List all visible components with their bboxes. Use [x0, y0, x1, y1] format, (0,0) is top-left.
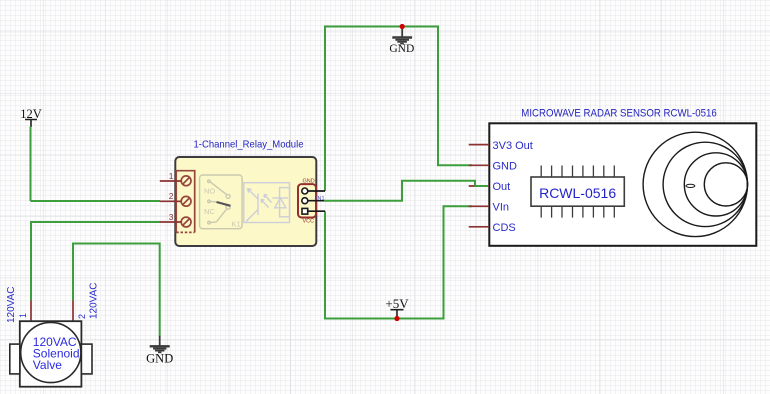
svg-text:1: 1	[169, 171, 174, 181]
svg-text:120VAC: 120VAC	[6, 286, 17, 323]
wire 12V vertical	[30, 127, 32, 202]
junction dot	[400, 24, 405, 29]
svg-text:Out: Out	[493, 181, 511, 193]
chip bottom legs	[541, 206, 614, 217]
relay armature (dark)	[217, 202, 231, 206]
relay contact drawing K1	[200, 175, 243, 229]
terminal 1	[181, 176, 191, 186]
pin 2 stub	[160, 200, 181, 202]
svg-text:1: 1	[18, 313, 28, 318]
svg-text:3: 3	[169, 212, 174, 222]
valve pin 2 stub	[72, 301, 74, 322]
relay module 1-Channel_Relay_Module	[160, 139, 325, 247]
wire relay IN1 to sensor Out	[324, 181, 486, 201]
svg-text:VCC: VCC	[303, 219, 315, 225]
ground GND (lower left)	[146, 336, 173, 366]
sensor body	[489, 123, 756, 246]
microwave radar sensor RCWL-0516	[469, 108, 757, 246]
radar wave circles	[643, 132, 747, 236]
pin GND	[302, 188, 308, 194]
svg-text:2: 2	[169, 191, 174, 201]
svg-text:VIn: VIn	[493, 202, 510, 214]
svg-text:120VAC: 120VAC	[89, 282, 100, 319]
pin VIn	[469, 205, 489, 207]
screw terminal block	[176, 171, 195, 233]
svg-text:NO: NO	[204, 187, 215, 196]
pin 1 stub	[160, 180, 181, 182]
small ellipse detail	[686, 184, 695, 187]
wire overlay: Out net tail over stub	[475, 185, 489, 187]
valve body	[20, 321, 82, 387]
svg-text:Valve: Valve	[33, 358, 62, 372]
chip top legs	[541, 166, 614, 178]
wire relay pin3 to valve pin1	[31, 222, 160, 301]
led arrows	[264, 195, 272, 203]
pin IN1	[302, 198, 308, 204]
svg-text:NC: NC	[204, 207, 215, 216]
optocoupler drawing	[244, 183, 290, 223]
relay body	[175, 157, 316, 246]
svg-text:3V3 Out: 3V3 Out	[493, 140, 533, 152]
chip RCWL-0516	[531, 177, 624, 206]
svg-text:GND: GND	[389, 43, 414, 55]
pin 3V3 Out	[469, 144, 489, 146]
pin GND	[469, 164, 489, 166]
wire 12V horizontal to relay pin 2	[31, 200, 161, 202]
pin Out	[469, 185, 489, 187]
left tab	[10, 344, 20, 374]
diode	[273, 197, 289, 199]
pin VCC	[302, 208, 308, 214]
svg-text:MICROWAVE RADAR SENSOR RCWL-05: MICROWAVE RADAR SENSOR RCWL-0516	[521, 108, 716, 120]
svg-text:GND: GND	[493, 160, 518, 172]
svg-text:GND: GND	[303, 179, 315, 185]
svg-text:CDS: CDS	[493, 222, 516, 234]
transistor	[257, 194, 259, 216]
valve circle	[21, 322, 81, 382]
terminal 2	[181, 196, 191, 206]
wire relay GND pin up and over	[325, 27, 472, 192]
wire relay VCC pin down to +5V rail	[325, 206, 472, 318]
terminal 3	[181, 217, 191, 227]
net 12V: power flag	[20, 107, 42, 127]
right tab	[81, 344, 92, 374]
ground GND (top)	[389, 24, 414, 55]
svg-text:K1: K1	[232, 220, 241, 229]
power +5V flag	[385, 296, 409, 321]
pin 3 stub	[160, 221, 181, 223]
junction dot	[394, 316, 399, 321]
pin CDS	[469, 226, 489, 228]
svg-text:IN1: IN1	[316, 196, 325, 202]
svg-text:RCWL-0516: RCWL-0516	[539, 185, 616, 201]
svg-text:2: 2	[77, 314, 87, 319]
solenoid valve 120VAC	[6, 282, 100, 386]
output connector	[298, 184, 316, 217]
svg-text:GND: GND	[146, 352, 173, 366]
valve pin 1 stub	[30, 301, 32, 322]
svg-text:1-Channel_Relay_Module: 1-Channel_Relay_Module	[194, 139, 304, 151]
wire valve pin2 to ground	[73, 244, 160, 337]
